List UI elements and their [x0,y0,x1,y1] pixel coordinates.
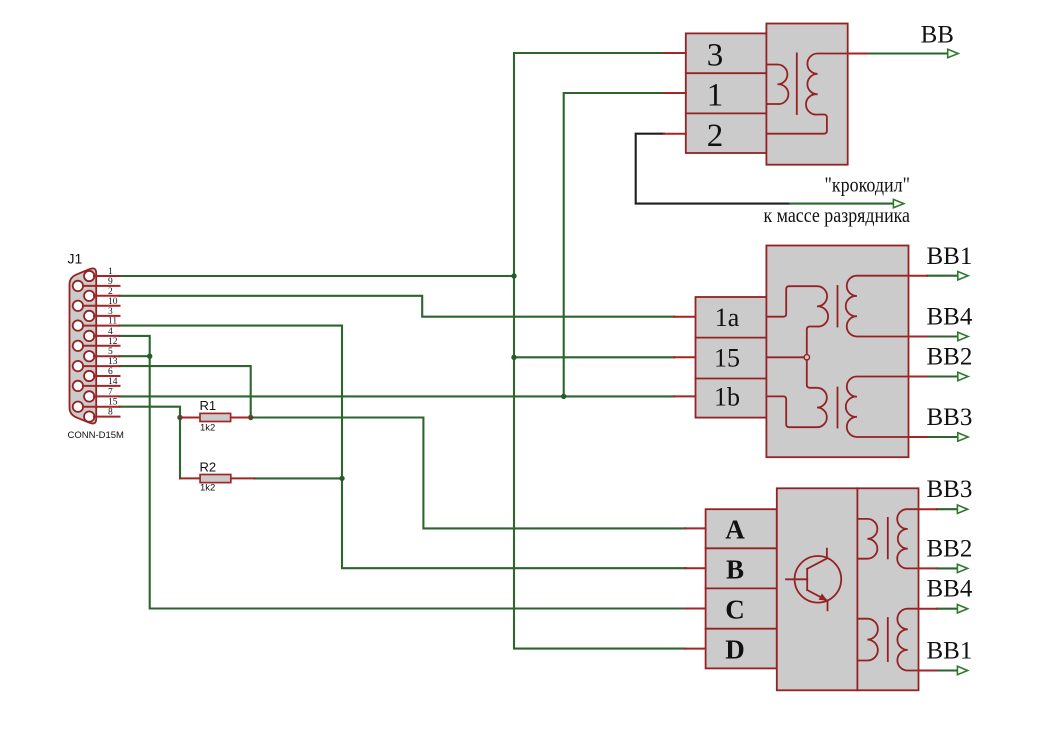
svg-text:9: 9 [108,277,113,287]
junction dot 15-row/bus [511,355,516,360]
svg-text:BB4: BB4 [927,304,973,331]
svg-text:1a: 1a [715,303,740,332]
svg-text:11: 11 [108,317,117,327]
wire output BB3 middle [927,436,958,438]
svg-text:2: 2 [108,287,113,297]
svg-text:1k2: 1k2 [200,423,215,434]
wire 15-row from bus to middle block [514,356,675,358]
wire output BB1 [927,275,958,277]
wire output BB4 middle [927,335,958,337]
wire R1 left to R2 left vertical [179,418,181,479]
bottom transformer box [777,488,919,690]
junction dot pin1/bus [511,273,516,278]
svg-text:BB1: BB1 [927,638,973,665]
svg-text:13: 13 [108,357,118,367]
middle transformer T1 primary winding [766,286,828,354]
svg-text:BB1: BB1 [927,243,973,270]
transistor Q1 base lead [786,578,807,580]
svg-text:к массе разрядника: к массе разрядника [764,203,911,227]
wire net pin15 down to R1 left [120,407,181,418]
svg-text:C: C [725,595,745,625]
svg-text:A: A [725,514,745,544]
terminal arrow BB3 bottom [957,505,967,513]
terminal arrow BB4 middle [958,332,968,340]
terminal arrow BB [948,49,959,57]
svg-text:7: 7 [108,387,113,397]
svg-text:1b: 1b [714,383,740,412]
middle block pin stubs [674,317,696,397]
middle block 15 lead to node [766,356,804,358]
middle transformer T2 primary winding [766,360,826,427]
svg-text:3: 3 [707,38,724,74]
bottom transformer T2 primary winding [857,619,877,661]
resistor R2 [180,475,254,483]
J1 pin holes left column 9-15 [73,281,83,412]
wire net R1 right to A [251,418,686,529]
svg-text:BB3: BB3 [927,404,973,431]
svg-text:CONN-D15M: CONN-D15M [68,430,125,441]
svg-text:B: B [726,554,744,584]
bottom transformer T2 secondary winding [897,609,918,671]
wire output BB [868,52,948,54]
wire net pin11 / R2 / B [120,326,686,569]
middle transformer T1 core [837,286,839,327]
svg-text:10: 10 [108,297,118,307]
svg-text:R1: R1 [200,398,217,413]
wire output BB2 middle [927,375,958,377]
wire R2 right to pin11 bus [254,477,342,479]
J1 pin stubs [83,276,120,417]
top transformer primary winding [767,65,789,105]
svg-text:R2: R2 [200,459,217,474]
middle transformer T2 secondary winding [846,377,909,438]
wire net pin7 to 1b [120,395,675,397]
wire black ground к массе разрядника [636,134,790,204]
terminal arrow BB3 middle [958,433,968,441]
terminal arrow ground [893,199,903,207]
svg-text:BB2: BB2 [927,535,973,562]
wire output BB4 bottom [937,608,958,610]
terminal arrow BB1 bottom [957,666,967,674]
transistor Q1 emitter with arrow [807,590,827,610]
svg-text:12: 12 [108,337,118,347]
svg-text:1k2: 1k2 [200,483,215,494]
wire net pin1 to vertical bus [120,275,515,277]
bottom transformer T1 secondary winding [897,509,918,568]
middle transformer T1 secondary winding [846,276,909,337]
bottom transformer T2 core [887,618,889,661]
svg-text:15: 15 [108,398,118,408]
svg-text:6: 6 [108,367,113,377]
svg-text:5: 5 [108,347,113,357]
bottom transformer T1 primary winding [857,519,877,559]
svg-text:"крокодил": "крокодил" [825,173,911,197]
wire net pin2 to 1a [120,296,675,317]
junction dot R1 right [248,415,253,420]
svg-text:3: 3 [108,307,113,317]
svg-text:BB2: BB2 [927,344,973,371]
svg-text:BB3: BB3 [927,476,973,503]
svg-text:2: 2 [707,118,724,154]
top block terminal cells 3/1/2 [686,33,767,153]
svg-text:8: 8 [108,408,113,418]
top transformer box [766,24,847,165]
junction dot R1 left [177,415,182,420]
svg-text:BB4: BB4 [927,576,973,603]
junction dot pin5 [147,354,152,359]
bottom block output pins [919,509,937,670]
wire green segment to ground arrow [790,203,894,205]
transistor Q1 base bar [806,569,808,590]
transistor Q1 collector [807,549,827,569]
svg-text:1: 1 [707,78,724,114]
junction dot R2 right [339,476,344,481]
svg-text:1: 1 [108,267,113,277]
svg-text:14: 14 [108,377,118,387]
transistor Q1 emitter arrowhead [819,594,828,601]
svg-text:D: D [725,635,745,665]
middle transformer box [766,246,908,458]
transistor Q1 circle [795,556,842,603]
middle transformer T2 core [837,388,839,428]
bottom transformer T1 core [887,518,889,559]
terminal arrow BB2 bottom [957,564,967,572]
top transformer core [796,53,798,114]
top block pin stubs [664,53,686,134]
terminal arrow BB1 middle [958,272,968,280]
svg-text:BB: BB [921,21,954,48]
bottom block terminal cells A/B/C/D [706,509,777,668]
J1 pin number labels [108,267,118,418]
svg-text:J1: J1 [68,251,83,267]
terminal arrow BB2 middle [958,372,968,380]
terminal arrow BB4 bottom [957,605,967,613]
wire net pin13 down to R1 right [120,366,251,417]
top transformer secondary winding [767,54,848,134]
wire net pin4 / pin5 / C [120,336,686,609]
connector J1 body [70,268,97,423]
wire output BB1 bottom [937,669,958,671]
wire vertical bus x=514 (top pin3 / pin1 / 15 / D net) [514,53,686,649]
middle block terminal cells 1a/15/1b [696,297,767,418]
middle block center tap node circle [804,355,809,360]
top transformer output pin [848,53,868,55]
resistor R1 [180,413,251,421]
wire output BB2 bottom [937,567,958,569]
wire output BB3 bottom [937,508,958,510]
junction dot 1b-row [561,394,566,399]
wire net top pin1 / 1b vertical x=563.7 [564,93,664,396]
J1 pin holes right column 1-8 [84,271,94,422]
wire pin5 stub to junction [120,355,150,357]
bottom block pin stubs [685,528,706,648]
svg-text:4: 4 [108,327,113,337]
svg-text:15: 15 [714,344,740,373]
middle block output pins [909,276,928,437]
bottom box internal divider [856,488,858,690]
